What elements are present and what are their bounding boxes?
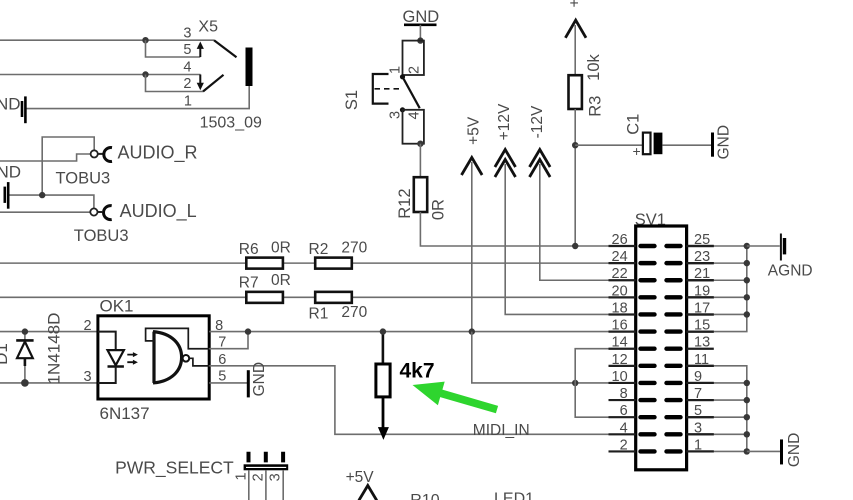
pin 10 stub [609,382,636,384]
pin 22 stub [609,279,636,281]
svg-text:+: + [633,143,641,159]
svg-text:4: 4 [620,420,628,436]
ground GND (OK1 pin5) [248,362,268,397]
supply +12V [495,103,516,177]
wire pin5 to gnd [209,382,247,384]
jack lever pin3 [214,40,237,57]
svg-text:5: 5 [183,42,191,58]
pin 11 stub [687,365,714,367]
wire bracket pins 14-6 [575,349,636,417]
pin crescent AUDIO_L [104,206,112,220]
svg-text:GND: GND [0,95,21,114]
wire pin20 row [0,296,636,298]
svg-text:3: 3 [84,369,92,385]
svg-text:14: 14 [612,335,628,351]
wire -12V to pin22 row [540,164,636,280]
svg-text:X5: X5 [198,19,218,36]
svg-text:20: 20 [612,283,628,299]
svg-text:2: 2 [84,318,92,334]
node junction bus row 9 [744,397,750,403]
svg-text:+12V: +12V [496,103,513,140]
node junction D1 bottom [21,379,29,387]
wire AGND stub [747,245,780,247]
svg-text:3: 3 [388,111,404,119]
pin 14 stub [609,348,636,350]
diode D1 1N4148 [16,332,33,383]
svg-text:13: 13 [694,335,710,351]
svg-text:R2: R2 [309,241,329,258]
svg-text:2: 2 [251,473,267,481]
node junction bus row 11 [744,431,750,437]
node junction bus row 3 [744,294,750,300]
wire + to R3 [574,25,576,75]
resistor R1 [315,292,352,303]
node junction audio gnd [39,192,45,198]
svg-text:7: 7 [218,334,226,350]
pin 17 stub [687,313,714,315]
wire to C1 [575,144,643,146]
svg-text:AUDIO_L: AUDIO_L [120,201,197,222]
svg-text:3: 3 [183,26,191,42]
capacitor C1 (polarized) [625,114,663,159]
wire C1 to gnd [662,144,711,146]
svg-text:22: 22 [612,266,628,282]
wire pin1 [26,86,250,109]
jack sleeve bar [246,48,253,87]
pin circle AUDIO_L [90,208,97,215]
svg-text:1: 1 [184,94,192,110]
pin 20 stub [609,296,636,298]
svg-text:26: 26 [612,232,628,248]
wire OK1 pin2 row [0,331,98,333]
connector PWR_SELECT jumper [234,452,289,482]
supply +5V (bottom) [346,469,377,500]
svg-text:R10: R10 [410,492,439,500]
wire audio top loop [42,137,94,195]
wire AGND bus (pins 25-15) [687,246,747,332]
svg-text:GND: GND [251,362,268,396]
svg-text:16: 16 [612,318,628,334]
svg-text:0R: 0R [271,272,291,289]
switch-contact arrow pin5 [199,47,201,57]
svg-text:AUDIO_R: AUDIO_R [118,143,198,164]
svg-text:6N137: 6N137 [100,404,150,423]
ground GND (C1) [713,125,733,159]
resistor R7 [246,292,283,303]
svg-text:PWR_SELECT: PWR_SELECT [115,458,234,479]
jack lever pin2 [203,75,224,92]
resistor 4k7 [376,364,390,397]
node junction D1 top [22,328,28,334]
switch S1 [343,37,424,147]
wire ground to audio junction [10,195,94,208]
ground GND (SV1 pin1) [782,433,803,467]
pin 13 stub [687,348,714,350]
pin 15 stub [687,331,714,333]
annotation green arrow [413,382,499,414]
node junction pin3 [142,37,148,43]
node junction pin26 row [572,243,578,249]
ground AGND (jack sleeve) [0,95,25,124]
svg-text:24: 24 [612,249,628,265]
svg-text:GND: GND [403,8,440,26]
svg-text:2: 2 [183,76,191,92]
pin 1 stub [687,450,714,452]
node junction 4k7 top [380,328,386,334]
wire +5V row junction to 4k7 [382,332,385,364]
pin 7 stub [687,399,714,401]
wire jumper pins down [249,470,283,500]
svg-text:270: 270 [341,239,367,256]
wire R12 to SV1 pin26 [420,212,635,246]
switch-contact arrow pin2 [199,75,201,84]
pin 4 stub [609,433,636,435]
wire pin4 row [0,74,201,76]
pin 6 stub [609,416,636,418]
svg-text:1N4148D: 1N4148D [45,313,64,385]
pin 26 stub [609,245,636,247]
ground GND (above S1) [403,8,440,26]
pin circle AUDIO_R [91,150,98,157]
svg-text:12: 12 [612,352,628,368]
node junction bus row 8 [744,380,750,386]
pin 24 stub [609,262,636,264]
svg-text:OK1: OK1 [100,297,134,316]
svg-text:0R: 0R [271,239,291,256]
pin stubs overlay right [687,245,714,247]
supply + (top, R3) [565,0,586,38]
pin 19 stub [687,296,714,298]
optocoupler OK1 6N137 [98,316,209,399]
svg-text:10: 10 [612,369,628,385]
node junction +5V/pin16 [469,328,475,334]
wire OK1 pin3 row [0,382,98,384]
resistor R12 [414,177,427,212]
svg-text:4: 4 [406,111,422,119]
ground AGND (audio) [0,163,21,209]
wire pin3 row [0,39,214,41]
wire pin7 jog [209,332,248,349]
svg-text:+5V: +5V [346,469,375,486]
wire GND bus (pins 11-1) [687,366,747,452]
junction arrowhead 4k7/MIDI_IN [378,427,389,440]
svg-text:+5V: +5V [566,0,583,8]
wire pin2 branch [146,75,204,92]
pin 2 stub [609,450,636,452]
svg-text:1503_09: 1503_09 [200,115,262,132]
node junction bracket pin10 [572,380,578,386]
supply -12V [529,105,550,177]
svg-text:4: 4 [183,60,191,76]
wire pin24 row [0,262,636,264]
wire S1 to R12 [419,144,421,178]
wire +12V to pin18 row [505,164,636,314]
node junction bus row 1 [744,260,750,266]
wire pin6 to MIDI_IN row [209,366,636,434]
wire +5V branch to pin10 row [472,332,636,383]
pin 23 stub [687,262,714,264]
wire GND stub [747,450,780,452]
svg-text:1: 1 [234,472,250,480]
wire 4k7 bottom [382,397,385,429]
svg-text:R1: R1 [309,305,329,322]
pin crescent AUDIO_R [104,148,112,162]
svg-text:-12V: -12V [529,105,546,138]
node junction bus row 4 [744,311,750,317]
pin stub AUDIO_L [98,211,103,213]
svg-text:GND: GND [716,125,733,159]
wire gnd to S1 [419,25,421,41]
svg-text:R3: R3 [587,96,605,117]
node junction bus row 10 [744,414,750,420]
svg-text:S1: S1 [343,90,361,110]
connector SV1 [635,211,687,470]
pin 9 stub [687,382,714,384]
wire AUDIO_R from left [0,154,91,161]
svg-text:GND: GND [0,163,21,182]
pin 21 stub [687,279,714,281]
svg-text:18: 18 [612,300,628,316]
svg-text:MIDI_IN: MIDI_IN [473,422,530,439]
svg-text:3: 3 [268,473,284,481]
node junction bus row 12 [744,448,750,454]
svg-text:R6: R6 [239,241,259,258]
svg-text:10k: 10k [585,53,603,80]
ground AGND [768,234,813,280]
pin 25 stub [687,245,714,247]
svg-text:1: 1 [388,66,404,74]
pin 5 stub [687,416,714,418]
node junction bus row 2 [744,277,750,283]
pin 12 stub [609,365,636,367]
svg-text:AGND: AGND [768,263,813,280]
svg-text:TOBU3: TOBU3 [74,227,129,245]
svg-text:TOBU3: TOBU3 [56,169,111,187]
wire +5V down to pin16 row [471,162,473,332]
svg-text:D1: D1 [0,343,11,365]
svg-text:4k7: 4k7 [400,360,435,383]
svg-text:R7: R7 [239,275,259,292]
svg-text:GND: GND [786,433,803,467]
svg-text:8: 8 [620,386,628,402]
node junction pin4 [142,71,148,77]
svg-text:2: 2 [620,437,628,453]
node junction bus row 0 [744,243,750,249]
svg-text:6: 6 [620,403,628,419]
svg-text:+5V: +5V [465,116,482,145]
node junction pin7/pin8 [245,328,251,334]
svg-text:C1: C1 [625,114,643,135]
wire AUDIO_L from left [0,211,90,213]
svg-text:R12: R12 [396,188,414,218]
supply +5V [462,116,483,175]
pin stub AUDIO_R [98,153,103,155]
svg-text:0R: 0R [430,199,448,220]
wire pin8 row to SV1 pin16 [209,331,636,333]
wire pin5 branch [146,40,201,57]
wire R3 down to pin26 row [574,109,576,246]
svg-text:270: 270 [341,304,367,321]
pin 18 stub [609,313,636,315]
node junction R3/C1 [572,142,578,148]
svg-text:LED1: LED1 [494,491,534,500]
pin 16 stub [609,331,636,333]
svg-text:2: 2 [406,66,422,74]
connector X5 (1503_09 jack) [0,19,262,132]
resistor R3 [569,75,582,109]
pin 8 stub [609,399,636,401]
resistor R6 [246,258,283,269]
resistor R2 [315,258,352,269]
pin 3 stub [687,433,714,435]
